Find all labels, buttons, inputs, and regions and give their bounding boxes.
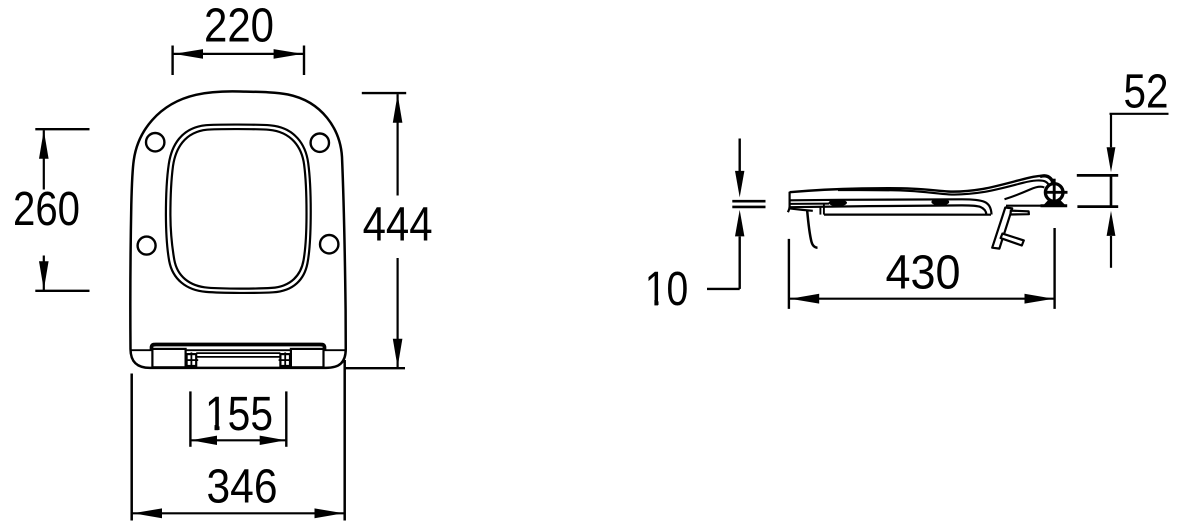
front view left screw cross	[185, 359, 198, 361]
dimension 10 upper tick	[732, 200, 765, 203]
front view left hinge screw plate	[187, 354, 197, 366]
dimension 155 right tick	[285, 391, 287, 446]
side view horn hook bold overlay	[1040, 176, 1053, 186]
front view bumper circle upper-right	[311, 134, 329, 152]
dimension 10 lower tick	[732, 206, 765, 209]
side view lid side edge line	[838, 180, 1049, 194]
dimension 220 line	[173, 53, 304, 55]
side view hinge foot	[1043, 200, 1067, 206]
dimension 10 leader line	[707, 288, 740, 290]
dimension 430 left arrowhead	[790, 294, 819, 304]
side view hinge pin cross	[1053, 179, 1056, 205]
side view neck back line	[1005, 187, 1045, 200]
dimension 260 lower line and arrowhead	[43, 256, 45, 291]
dimension 346 left arrowhead	[133, 508, 162, 518]
dimension 155 left tick	[189, 391, 191, 446]
dimension 430 right extension line	[1053, 228, 1055, 309]
side view hanging front lip	[807, 211, 817, 248]
dimension 10 upper line and arrowhead	[739, 139, 741, 172]
dimension 220 left tick	[171, 46, 173, 76]
front view seat opening outer edge	[166, 125, 311, 293]
svg-text:155: 155	[205, 388, 273, 441]
front view right hinge screw plate	[280, 354, 290, 366]
dimension 220 right tick	[303, 46, 305, 76]
svg-text:260: 260	[13, 183, 80, 236]
side view bumper 2	[931, 199, 949, 206]
dimension 220 left arrowhead	[174, 49, 203, 59]
dimension 444 lower line and arrowhead	[397, 258, 399, 367]
dimension 10 lower arrowhead and line	[735, 210, 744, 237]
dimension 52 lower arrowhead and line	[1107, 211, 1116, 236]
dimension 52 upper tick	[1077, 174, 1118, 177]
dimension 444 top tick	[362, 92, 406, 94]
side view lip underside slope	[789, 208, 813, 211]
front view right screw cross	[279, 359, 292, 361]
side view hinge support arm leg	[992, 208, 1012, 249]
side view lower rim line	[824, 214, 991, 216]
dimension 52 connector line	[1110, 175, 1113, 207]
front view bumper circle lower-right	[320, 235, 338, 253]
dimension 346 right arrowhead	[315, 508, 344, 518]
dimension 444 upper line and arrowhead	[397, 94, 399, 195]
dimension 430 right arrowhead	[1025, 294, 1054, 304]
side view hinge support arm top bar	[1011, 211, 1029, 215]
svg-text:444: 444	[363, 199, 433, 252]
side view lid top edge line	[790, 176, 1054, 192]
svg-text:10: 10	[645, 263, 689, 316]
side view ring bottom ground line with back bend	[790, 205, 986, 214]
svg-text:430: 430	[886, 247, 961, 300]
dimension 346 right extension line	[343, 360, 346, 521]
side view hinge support arm foot	[1001, 234, 1024, 246]
front view outer contour of seat lid	[130, 91, 345, 367]
front view bumper circle lower-left	[138, 237, 156, 255]
dimension 260 upper line and arrowhead	[43, 130, 45, 189]
side view lid bottom line with ring back corner	[790, 199, 991, 214]
dimension 444 bottom tick	[345, 367, 405, 369]
front view bumper circle upper-left	[146, 133, 164, 151]
svg-text:220: 220	[204, 0, 274, 52]
dimension 155 left arrowhead	[191, 436, 217, 445]
dimension 430 left extension line	[788, 239, 790, 309]
side view hinge ground segment	[1041, 204, 1068, 207]
dimension 155 line	[190, 439, 286, 441]
front view hinge cover bar	[152, 345, 325, 351]
svg-text:52: 52	[1124, 66, 1169, 119]
dimension 52 lower tick	[1077, 205, 1118, 208]
svg-text:346: 346	[207, 460, 278, 513]
front view right hinge bracket	[291, 349, 324, 367]
side view ring front top segment	[790, 203, 829, 205]
side view bumper 1	[829, 199, 847, 206]
front view left hinge bracket	[152, 349, 185, 367]
front view seat opening inner edge	[170, 129, 306, 289]
dimension 260 bottom tick	[35, 290, 89, 292]
side view hinge ground line segment	[1006, 205, 1043, 207]
dimension 155 right arrowhead	[260, 436, 286, 445]
front view seat/lid parting line	[131, 349, 346, 351]
dimension 52 leader line	[1110, 113, 1169, 115]
dimension 220 right arrowhead	[274, 49, 303, 59]
front view hinge rod lines	[196, 352, 280, 354]
dimension 346 line	[133, 512, 345, 514]
side view left step verticals	[819, 207, 821, 215]
dimension 346 left extension line	[130, 374, 133, 521]
dimension 430 line	[790, 298, 1054, 300]
side view hinge pin circle	[1045, 184, 1063, 202]
dimension 52 upper line and arrowhead	[1110, 114, 1112, 148]
side view lid left end cap	[788, 192, 790, 212]
dimension 260 top tick	[35, 128, 89, 130]
